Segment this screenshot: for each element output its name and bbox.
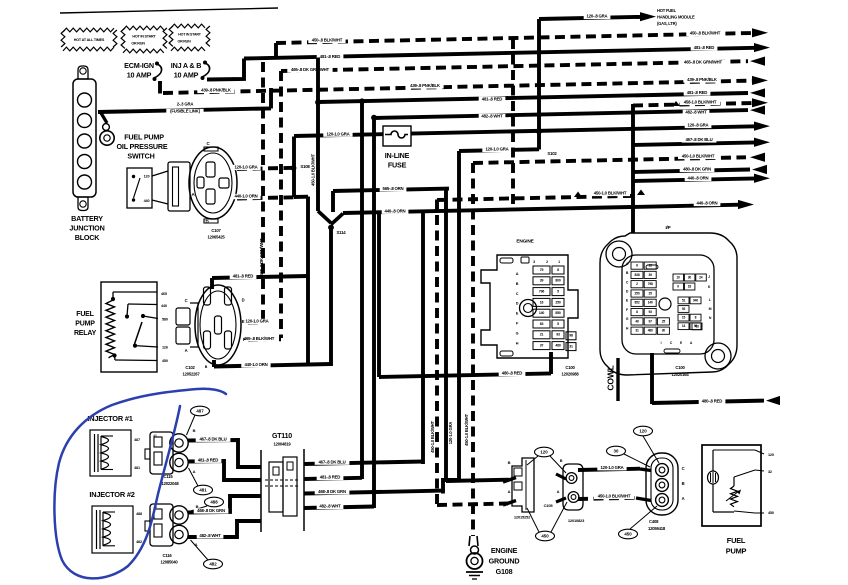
svg-text:450-.8 BLK/WHT: 450-.8 BLK/WHT — [312, 38, 343, 43]
svg-text:I/P: I/P — [665, 225, 670, 230]
svg-text:940: 940 — [693, 298, 698, 302]
svg-text:120: 120 — [639, 428, 647, 433]
connector C408 — [646, 453, 678, 515]
fusible link eyelet at battery block — [101, 113, 107, 123]
wire 440-.8 ORN (upper) — [633, 178, 756, 181]
svg-text:482-.8 WHT: 482-.8 WHT — [685, 110, 707, 115]
fusible link callout box 1: HOT AT ALL TIMES — [63, 28, 114, 32]
svg-text:796: 796 — [539, 290, 544, 294]
svg-text:A: A — [185, 348, 188, 353]
svg-text:481-.8 RED: 481-.8 RED — [482, 96, 503, 101]
svg-text:120: 120 — [144, 175, 150, 179]
callout 488 — [205, 497, 224, 507]
fusible link callout box 2: HOT IN START OR RUN — [123, 26, 164, 30]
node S153 — [315, 99, 321, 105]
fuel pump internals — [712, 450, 714, 471]
svg-text:OR RUN: OR RUN — [131, 41, 145, 45]
svg-text:HOT IN START: HOT IN START — [132, 34, 156, 38]
svg-text:18: 18 — [688, 284, 692, 288]
vertical S114 down to 440 wire — [329, 227, 333, 366]
svg-text:481-.8 RED: 481-.8 RED — [320, 54, 341, 59]
fusible link callout box 3: HOT IN START OR RUN — [171, 24, 205, 28]
svg-text:800: 800 — [555, 279, 560, 283]
svg-text:12085040: 12085040 — [160, 560, 178, 565]
svg-text:A: A — [508, 489, 511, 494]
svg-text:A: A — [193, 469, 196, 474]
wire 482-.8 WHT from injector 2 — [188, 521, 261, 537]
svg-text:488: 488 — [210, 499, 218, 504]
svg-text:140: 140 — [648, 301, 653, 305]
svg-text:465-.8 DK GRN/WHT: 465-.8 DK GRN/WHT — [291, 67, 329, 72]
svg-text:440-.8 ORN: 440-.8 ORN — [697, 201, 718, 206]
svg-text:31: 31 — [569, 345, 573, 349]
vertical injector 482 x374 — [372, 118, 376, 509]
svg-text:G108: G108 — [496, 567, 513, 576]
svg-text:481-.8 RED: 481-.8 RED — [694, 45, 715, 50]
ground symbol — [466, 571, 483, 573]
wire 450-1.0 BLK/WHT to C408 (dashed) — [578, 498, 636, 499]
svg-text:481-.8 RED: 481-.8 RED — [687, 90, 708, 95]
svg-text:A: A — [682, 496, 685, 501]
svg-text:97: 97 — [649, 319, 653, 323]
node S114 — [328, 225, 334, 231]
connector C105 — [512, 458, 534, 512]
svg-text:798: 798 — [648, 282, 653, 286]
vertical S108 to in-line fuse line — [292, 137, 296, 198]
connector 12010823 — [563, 464, 583, 510]
svg-text:467-.8 DK BLU: 467-.8 DK BLU — [199, 436, 226, 441]
svg-text:A: A — [516, 272, 519, 276]
svg-text:120-1.0 GRA: 120-1.0 GRA — [600, 465, 623, 470]
svg-text:C102: C102 — [185, 365, 195, 370]
svg-text:467-.8 DK BLU: 467-.8 DK BLU — [685, 137, 712, 142]
wire 467-.8 DK BLU from injector 1 — [188, 440, 261, 467]
svg-text:120: 120 — [540, 449, 548, 454]
svg-text:HOT FUEL: HOT FUEL — [657, 8, 677, 13]
wire 450-1.0 BLK/WHT (dashed to left arrow) — [473, 157, 746, 163]
svg-text:450: 450 — [768, 511, 774, 515]
svg-text:465-.8 BLK/WHT: 465-.8 BLK/WHT — [244, 336, 275, 341]
vertical 120 x462 with jog — [457, 151, 461, 480]
svg-text:HOT IN START: HOT IN START — [178, 32, 201, 36]
svg-text:24: 24 — [699, 275, 703, 279]
svg-text:14: 14 — [682, 324, 686, 328]
svg-text:D: D — [242, 298, 245, 303]
svg-text:450: 450 — [624, 531, 632, 536]
svg-text:120-.8 GRA: 120-.8 GRA — [688, 123, 709, 128]
svg-text:BATTERY: BATTERY — [71, 214, 103, 223]
dashed wire 450 to C105-A — [437, 504, 508, 506]
svg-text:98: 98 — [569, 334, 573, 338]
wire 468-.8 DK GRN from GT110 — [304, 491, 443, 494]
svg-text:93: 93 — [556, 333, 560, 337]
svg-text:465: 465 — [161, 292, 167, 296]
svg-text:480-.8 RED: 480-.8 RED — [502, 371, 523, 376]
svg-text:J: J — [708, 275, 710, 279]
svg-text:468-.8 DK GRN: 468-.8 DK GRN — [318, 489, 346, 494]
svg-text:250: 250 — [635, 291, 640, 295]
svg-text:250: 250 — [555, 300, 560, 304]
svg-text:140: 140 — [539, 311, 544, 315]
svg-text:D: D — [516, 302, 519, 306]
svg-text:482: 482 — [136, 540, 142, 544]
relay contacts — [125, 314, 129, 318]
svg-text:(GAS, LTR): (GAS, LTR) — [657, 21, 677, 26]
svg-text:481: 481 — [199, 487, 207, 492]
svg-text:C: C — [185, 298, 188, 303]
svg-text:GROUND: GROUND — [489, 556, 520, 565]
svg-text:120-1.0 GRA: 120-1.0 GRA — [234, 165, 257, 170]
callout 120 (left pair) — [535, 447, 554, 457]
svg-text:B: B — [516, 282, 519, 286]
svg-text:12052267: 12052267 — [182, 372, 200, 377]
svg-text:S153: S153 — [324, 99, 334, 104]
svg-text:C: C — [682, 466, 685, 471]
engine ground eyelet G108 — [469, 536, 478, 546]
wire 468-.8 DK GRN from injector 2 — [188, 496, 261, 513]
dashed vertical 450 x475 to engine ground — [471, 163, 475, 536]
svg-text:12020164: 12020164 — [671, 372, 689, 377]
svg-text:B: B — [682, 481, 685, 486]
svg-text:12010823: 12010823 — [568, 518, 585, 523]
switch box — [127, 168, 152, 208]
svg-text:30: 30 — [614, 448, 619, 453]
svg-text:32: 32 — [768, 470, 772, 474]
wire: riser from fusible link wire up to 439 line — [269, 88, 273, 109]
vertical 120 GRA x446 to C105-B — [444, 190, 448, 481]
svg-text:450-1.0 BLK/WHT: 450-1.0 BLK/WHT — [311, 154, 316, 186]
svg-text:INJECTOR #2: INJECTOR #2 — [89, 490, 134, 499]
svg-text:25: 25 — [662, 319, 666, 323]
svg-text:5: 5 — [557, 322, 559, 326]
svg-text:GT110: GT110 — [272, 433, 292, 440]
wire 481-.8 RED from GT110 — [304, 478, 362, 479]
wire 120-1.0 GRA from C107 (dashed) — [237, 168, 294, 169]
svg-text:C116: C116 — [163, 553, 173, 558]
wire 450-.8 BLK/WHT (top, dashed) — [276, 33, 752, 43]
svg-text:440-.8 ORN: 440-.8 ORN — [385, 208, 406, 213]
svg-text:IN-LINE: IN-LINE — [385, 151, 410, 160]
connector C107 — [168, 162, 190, 211]
svg-text:2-.3 GRA: 2-.3 GRA — [177, 102, 194, 107]
svg-text:468-.8 DK GRN: 468-.8 DK GRN — [197, 508, 225, 513]
svg-text:M: M — [709, 307, 712, 311]
svg-text:450-1.0 BLK/WHT: 450-1.0 BLK/WHT — [598, 494, 631, 499]
svg-text:10 AMP: 10 AMP — [174, 70, 199, 79]
svg-text:FUEL: FUEL — [727, 536, 746, 545]
svg-text:481-.8 RED: 481-.8 RED — [233, 274, 254, 279]
dashed vertical x513 — [511, 39, 515, 209]
node on S102 vertical — [536, 129, 542, 135]
svg-text:FUEL: FUEL — [76, 311, 94, 318]
svg-text:OR RUN: OR RUN — [178, 39, 192, 43]
svg-text:450-1.0 BLK/WHT: 450-1.0 BLK/WHT — [594, 191, 627, 196]
svg-text:1: 1 — [558, 260, 560, 264]
svg-text:25: 25 — [649, 291, 653, 295]
wire 120-1.0 GRA through IN-LINE FUSE — [294, 126, 756, 136]
svg-text:B: B — [560, 459, 563, 463]
injector #2 box — [92, 506, 133, 553]
COWL divider — [616, 358, 619, 401]
dashed vertical 450 x437 — [435, 200, 439, 506]
wire 450-1.0 BLK/WHT (short dashed with triangles) — [437, 196, 636, 200]
callout 487 — [191, 406, 210, 416]
svg-text:ENGINE: ENGINE — [516, 238, 534, 244]
svg-text:C408: C408 — [649, 519, 659, 524]
wire 565-.8 ORN — [333, 189, 449, 191]
svg-text:63: 63 — [695, 324, 699, 328]
svg-text:51: 51 — [682, 298, 686, 302]
svg-text:15: 15 — [649, 263, 653, 267]
svg-text:481-.8 RED: 481-.8 RED — [320, 475, 341, 480]
svg-text:12004819: 12004819 — [273, 442, 291, 447]
vertical 467 x423 — [421, 212, 425, 465]
callout 120 (C408) — [634, 426, 653, 436]
callout 120/450 near C105 — [527, 456, 538, 465]
svg-text:12020988: 12020988 — [561, 372, 579, 377]
svg-text:#1: #1 — [153, 434, 157, 438]
svg-text:93: 93 — [649, 310, 653, 314]
wire 2-.3 GRA fusible link from battery to vertical — [98, 108, 271, 112]
corner to vertical x308 — [294, 195, 308, 199]
svg-text:S114: S114 — [337, 230, 347, 235]
connector C102 — [176, 308, 190, 325]
svg-text:JUNCTION: JUNCTION — [69, 223, 104, 232]
injector #1 box — [90, 430, 131, 476]
svg-text:10: 10 — [676, 275, 680, 279]
callout 482 — [204, 559, 223, 569]
vertical bracket x633 — [631, 104, 635, 233]
hand-drawn blue loop around injectors — [54, 389, 226, 579]
wire 467-.8 DK BLU from GT110 — [304, 462, 423, 465]
relay coil — [106, 300, 115, 358]
vertical from 481 fuse line through S153 down, dogleg to S114 — [316, 58, 320, 212]
svg-text:2: 2 — [546, 260, 548, 264]
svg-text:439-.8 PNK/BLK: 439-.8 PNK/BLK — [687, 77, 718, 82]
svg-text:FUEL PUMP: FUEL PUMP — [124, 132, 164, 141]
svg-text:440: 440 — [144, 199, 150, 203]
svg-text:12022048: 12022048 — [161, 481, 179, 486]
svg-text:H: H — [516, 341, 519, 345]
svg-text:440-1.0 ORN: 440-1.0 ORN — [244, 362, 267, 367]
svg-text:37: 37 — [540, 344, 544, 348]
svg-text:480-.8 RED: 480-.8 RED — [702, 399, 723, 404]
svg-text:C107: C107 — [211, 228, 221, 233]
svg-text:B: B — [508, 460, 511, 465]
dashed vertical 120 GRA from C107 wire area down to relay C102-E — [261, 62, 265, 322]
svg-text:PUMP: PUMP — [726, 546, 747, 555]
svg-text:482-.8 WHT: 482-.8 WHT — [481, 114, 503, 119]
svg-text:OIL PRESSURE: OIL PRESSURE — [117, 142, 168, 151]
dashed vertical 465 down to relay C102-F — [279, 71, 283, 338]
stub joining 450 line to 481 line — [274, 43, 278, 59]
svg-text:480-.8 DK GRN: 480-.8 DK GRN — [683, 167, 711, 172]
vertical 480 RED x379 with corner to ENGINE block — [377, 213, 381, 378]
svg-text:63: 63 — [540, 322, 544, 326]
svg-text:481-.8 RED: 481-.8 RED — [198, 457, 219, 462]
svg-text:12015252: 12015252 — [514, 515, 531, 520]
svg-text:467-.8 DK BLU: 467-.8 DK BLU — [318, 459, 345, 464]
svg-text:120-.8 GRA: 120-.8 GRA — [587, 14, 608, 19]
connector C115 — [150, 432, 173, 474]
wire 481-.8 RED (from INJ fuse, solid) — [207, 59, 244, 80]
svg-text:C100: C100 — [565, 365, 575, 370]
wire 120-1.0 GRA from S102 corner to vertical x462 — [537, 148, 541, 150]
svg-text:A: A — [195, 542, 198, 547]
svg-text:(FUSIBLE LINK): (FUSIBLE LINK) — [170, 109, 200, 114]
svg-text:450-1.0 BLK/WHT: 450-1.0 BLK/WHT — [430, 421, 435, 453]
svg-text:92: 92 — [682, 307, 686, 311]
svg-text:126: 126 — [162, 346, 168, 350]
svg-text:440: 440 — [161, 304, 167, 308]
svg-text:120-1.0 GRA: 120-1.0 GRA — [485, 147, 508, 152]
svg-text:852: 852 — [635, 301, 640, 305]
svg-text:439-.8 PNK/BLK: 439-.8 PNK/BLK — [410, 83, 441, 88]
svg-text:481: 481 — [134, 466, 140, 470]
wire 480-.8 RED from C100 to left arrow — [650, 353, 654, 404]
svg-text:480: 480 — [555, 344, 560, 348]
svg-text:ECM-IGN: ECM-IGN — [124, 61, 154, 70]
fuel pump box — [702, 445, 761, 526]
scan artifact line — [60, 8, 278, 13]
connector C116 — [150, 504, 173, 546]
svg-text:450: 450 — [541, 533, 549, 538]
svg-text:S102: S102 — [547, 151, 557, 156]
svg-text:30: 30 — [688, 275, 692, 279]
callout 30 — [607, 446, 626, 456]
wire 481-.8 RED from injector 1 — [188, 461, 261, 480]
wire 439-.8 PNK/BLK (dashed from ECM fuse) — [158, 81, 162, 94]
svg-text:120: 120 — [768, 453, 774, 457]
svg-text:ENGINE: ENGINE — [491, 546, 518, 555]
wire 458-1.0 BLK/WHT (dashed) — [633, 103, 754, 106]
svg-text:30: 30 — [662, 329, 666, 333]
wire 440-.8 ORN (long lower) — [331, 214, 343, 225]
svg-text:450-.8 BLK/WHT: 450-.8 BLK/WHT — [690, 31, 721, 36]
svg-text:46: 46 — [635, 319, 639, 323]
wire 481-.8 RED (S153 branch, to left arrow) — [318, 93, 748, 102]
svg-text:C100: C100 — [675, 365, 685, 370]
callout 481 — [194, 485, 213, 495]
svg-text:A: A — [557, 490, 560, 494]
svg-text:INJ A & B: INJ A & B — [171, 61, 201, 70]
svg-text:120-1.0 GRA: 120-1.0 GRA — [326, 131, 349, 136]
svg-text:RELAY: RELAY — [74, 330, 97, 337]
svg-text:5: 5 — [557, 290, 559, 294]
in-line fuse — [383, 126, 411, 146]
svg-text:487: 487 — [134, 438, 140, 442]
wire 120-1.0 GRA to C408 — [578, 469, 640, 470]
wire 440-1.0 ORN from C107 (dashed) — [237, 197, 294, 198]
svg-text:12059418: 12059418 — [648, 526, 666, 531]
svg-text:482: 482 — [209, 561, 217, 566]
svg-text:HOT AT ALL TIMES: HOT AT ALL TIMES — [74, 38, 105, 42]
svg-text:450-1.0 BLK/WHT: 450-1.0 BLK/WHT — [682, 154, 715, 159]
svg-text:C: C — [516, 292, 519, 296]
svg-text:458-1.0 BLK/WHT: 458-1.0 BLK/WHT — [684, 100, 717, 105]
svg-text:450: 450 — [162, 359, 168, 363]
svg-text:C115: C115 — [164, 474, 174, 479]
svg-text:480: 480 — [648, 329, 653, 333]
svg-text:440-1.0 ORN: 440-1.0 ORN — [234, 194, 257, 199]
wire 480-.8 DK GRN (to left arrow) — [633, 170, 750, 173]
svg-text:C105: C105 — [544, 503, 554, 508]
svg-text:482-.8 WHT: 482-.8 WHT — [319, 504, 341, 509]
svg-text:120-1.0 GRA: 120-1.0 GRA — [245, 319, 268, 324]
vertical injector 481 feed x362 — [360, 102, 364, 480]
relay box — [101, 282, 157, 372]
svg-text:S108: S108 — [300, 164, 310, 169]
wire 482-.8 WHT (to left arrow) — [374, 110, 748, 118]
svg-text:838: 838 — [635, 273, 640, 277]
svg-text:465-.8 DK GRN/WHT: 465-.8 DK GRN/WHT — [684, 60, 722, 65]
svg-text:FUSE: FUSE — [388, 160, 407, 169]
svg-text:PUMP: PUMP — [75, 320, 95, 327]
wire 467-.8 DK BLU — [633, 142, 756, 145]
wire 465-.8 DK GRN/WHT (dashed, to left arrow) — [281, 61, 748, 71]
svg-text:HANDLING MODULE: HANDLING MODULE — [657, 15, 695, 20]
svg-text:12065425: 12065425 — [207, 235, 225, 240]
svg-text:75: 75 — [540, 268, 544, 272]
svg-text:21: 21 — [540, 333, 544, 337]
svg-text:BLOCK: BLOCK — [75, 233, 101, 242]
svg-text:15: 15 — [682, 315, 686, 319]
svg-text:10 AMP: 10 AMP — [127, 70, 152, 79]
svg-text:8: 8 — [557, 268, 559, 272]
svg-text:850: 850 — [555, 311, 560, 315]
svg-text:120-1.0 GRA: 120-1.0 GRA — [448, 422, 453, 445]
wire 440-1.0 ORN from relay C102 bottom — [212, 360, 216, 367]
wire 120-.8 GRA top to HOT FUEL HANDLING MODULE — [537, 19, 541, 148]
svg-text:482-.8 WHT: 482-.8 WHT — [199, 533, 221, 538]
svg-text:SWITCH: SWITCH — [127, 151, 154, 160]
svg-text:440-.8 ORN: 440-.8 ORN — [688, 176, 709, 181]
svg-text:488: 488 — [136, 512, 142, 516]
svg-text:E: E — [242, 319, 245, 324]
svg-text:487: 487 — [196, 408, 204, 413]
wire 481-.8 RED from relay C102-D — [210, 278, 214, 289]
svg-text:580: 580 — [162, 318, 168, 322]
svg-text:39: 39 — [540, 279, 544, 283]
wire 482-.8 WHT from GT110 — [304, 507, 374, 509]
battery junction block — [73, 79, 96, 197]
svg-text:3: 3 — [533, 260, 535, 264]
svg-text:31: 31 — [635, 329, 639, 333]
svg-text:565-.8 ORN: 565-.8 ORN — [383, 186, 404, 191]
svg-text:39: 39 — [649, 273, 653, 277]
svg-text:450-1.0 BLK/WHT: 450-1.0 BLK/WHT — [464, 414, 469, 446]
svg-text:G: G — [516, 331, 519, 335]
right pin groups — [673, 274, 684, 281]
svg-text:16: 16 — [540, 300, 544, 304]
callout 450 (C408) — [619, 529, 638, 539]
svg-text:439-.8 PNK/BLK: 439-.8 PNK/BLK — [201, 88, 232, 93]
svg-text:B: B — [193, 428, 196, 433]
